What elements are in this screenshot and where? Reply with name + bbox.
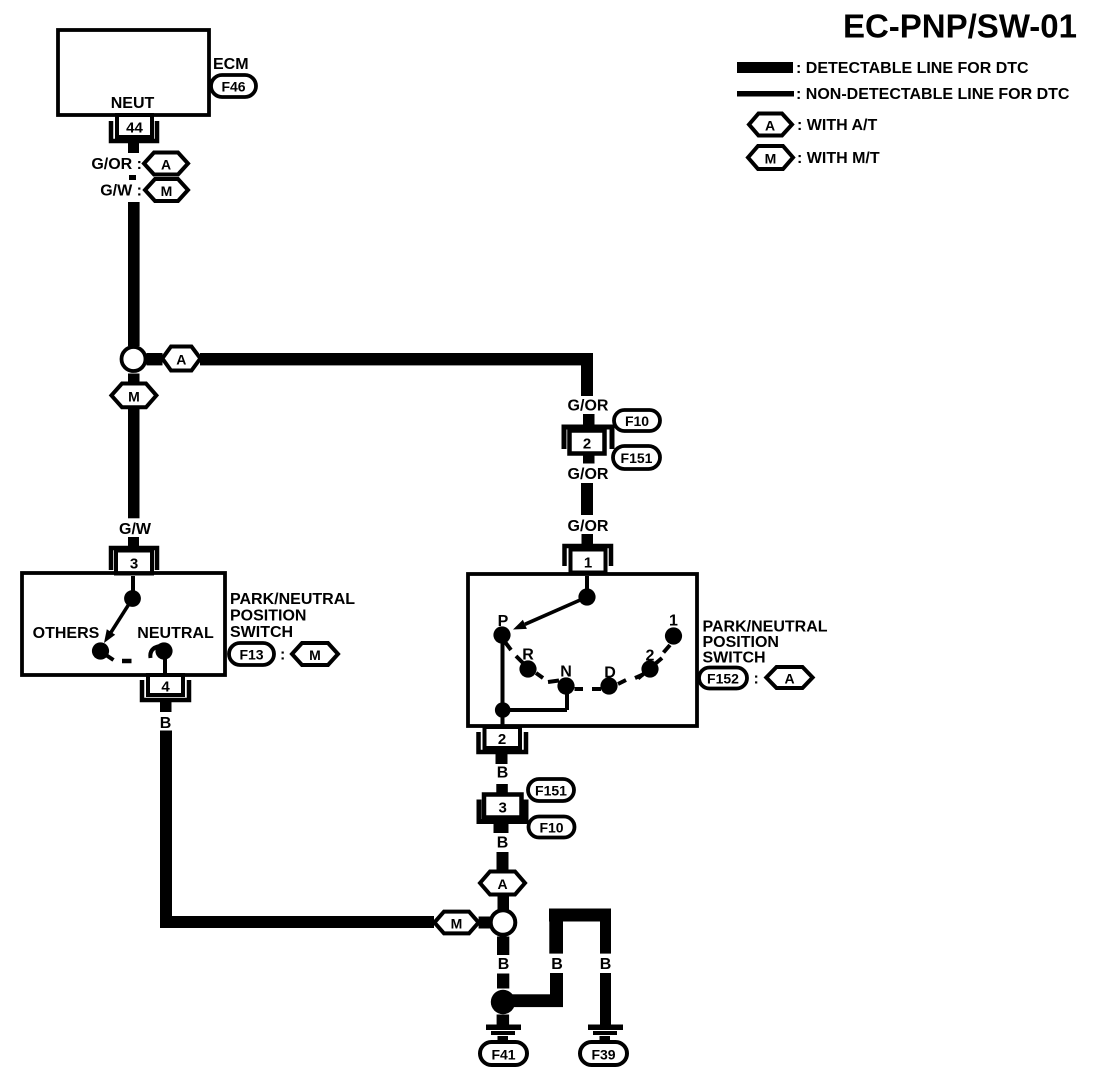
svg-text:EC-PNP/SW-01: EC-PNP/SW-01 — [843, 8, 1077, 45]
wire stub above pin 1 — [582, 534, 594, 545]
svg-text:3: 3 — [499, 800, 507, 817]
wire node to hexagon A — [147, 353, 163, 365]
contact dot N — [557, 677, 574, 694]
hexagon tag M below node — [111, 384, 156, 408]
junction dot in right box — [495, 702, 511, 718]
connector ref F10 pill (lower) — [529, 817, 575, 838]
svg-text::: : — [754, 671, 759, 688]
colon separator — [280, 647, 285, 664]
svg-text:POSITION: POSITION — [703, 634, 779, 651]
ground ref F39 pill — [580, 1042, 627, 1065]
wire stub below inline connector 2 — [583, 454, 595, 464]
svg-text:4: 4 — [161, 679, 170, 696]
wire stub below bottom node — [497, 937, 509, 956]
svg-text::: : — [280, 647, 285, 664]
label PARK/NEUTRAL POSITION SWITCH (left) — [230, 591, 355, 641]
R contact tick upper — [516, 656, 523, 663]
pin 3 connector of left switch — [111, 548, 157, 574]
svg-text:M: M — [451, 916, 463, 932]
legend detectable line label — [796, 60, 1029, 77]
hexagon tag A — [144, 153, 188, 175]
wire segment G/OR — [581, 483, 593, 515]
label D — [604, 665, 616, 682]
bridge top bar — [549, 909, 611, 922]
svg-text:ECM: ECM — [213, 56, 249, 73]
hexagon tag M bottom — [434, 912, 478, 934]
hexagon tag M — [145, 179, 188, 201]
label PARK/NEUTRAL POSITION SWITCH (right) — [703, 619, 828, 667]
connector ref F152 pill — [699, 668, 747, 689]
wire junction to N riser — [502, 708, 567, 712]
wire segment above hexagon A — [497, 852, 509, 872]
legend non-detectable line swatch — [737, 91, 794, 97]
ground junction dot — [491, 990, 515, 1014]
wire stub hexagon A to node — [498, 895, 510, 911]
right drop upper segment — [600, 919, 611, 954]
ECM box — [58, 30, 209, 115]
svg-text:F152: F152 — [707, 671, 739, 687]
pin 2 connector of right switch — [479, 727, 527, 752]
svg-text:A: A — [161, 157, 171, 173]
wire stub between rows — [129, 175, 136, 180]
label P — [498, 613, 509, 630]
switch common contact dot (left box) — [124, 590, 141, 607]
svg-text:2: 2 — [498, 731, 506, 748]
contact dot D — [600, 677, 617, 694]
svg-text:F39: F39 — [591, 1047, 615, 1063]
svg-text:F46: F46 — [221, 79, 245, 95]
svg-text:F151: F151 — [535, 783, 567, 799]
NEUTRAL contact dot — [155, 642, 172, 659]
wire bottom horizontal to hexagon M — [160, 916, 434, 928]
svg-text:G/OR :: G/OR : — [91, 156, 142, 173]
colon separator right — [754, 671, 759, 688]
hexagon tag A for F152 — [766, 667, 812, 688]
pin 4 connector of left switch — [142, 675, 189, 700]
connector ref F151 pill (lower) — [528, 779, 574, 801]
wire stub hexagon M to node — [479, 917, 492, 929]
legend non-detectable line label — [796, 86, 1070, 103]
svg-text:NEUT: NEUT — [111, 95, 155, 112]
wire label G/OR (right branch upper) — [568, 398, 609, 415]
svg-text:F10: F10 — [625, 413, 649, 429]
connector ref F46 pill — [211, 75, 256, 97]
svg-text:M: M — [765, 151, 777, 167]
wire label G/W — [119, 521, 152, 538]
D contact tick — [618, 680, 626, 684]
wire P down — [501, 640, 505, 726]
svg-text:M: M — [309, 647, 321, 663]
wire stub above pin 3 — [128, 537, 139, 547]
contact dot R — [519, 660, 536, 677]
contact 1 tick — [664, 645, 671, 653]
dash D-2 — [635, 675, 643, 679]
pin 1 connector of right switch — [565, 546, 612, 573]
wire label B (bottom middle) — [551, 956, 563, 973]
inline connector pin 3 (F151/F10) — [479, 795, 526, 822]
pin 44 connector — [111, 115, 157, 141]
wire right branch corner down — [581, 353, 593, 396]
slash through contact 2 — [638, 658, 662, 679]
right switch box (A/T) — [468, 574, 697, 726]
svg-text:B: B — [551, 956, 563, 973]
svg-text:A: A — [784, 671, 794, 687]
label NEUTRAL — [137, 625, 214, 642]
wire label B (bottom left) — [498, 956, 510, 973]
OTHERS contact dot — [92, 642, 109, 659]
svg-text:G/OR: G/OR — [568, 466, 609, 483]
wire stub below pin 44 — [128, 143, 139, 153]
label R — [522, 647, 534, 664]
svg-text:A: A — [176, 352, 186, 368]
svg-text:: WITH M/T: : WITH M/T — [797, 150, 880, 167]
wire dot to right riser — [510, 994, 563, 1007]
svg-text:PARK/NEUTRAL: PARK/NEUTRAL — [230, 591, 355, 608]
wire horizontal A/T branch — [200, 353, 593, 365]
wire label G/OR (lower) — [568, 518, 609, 535]
riser to N contact — [565, 690, 569, 710]
hexagon tag M for F13 — [292, 643, 338, 665]
svg-text:: NON-DETECTABLE LINE FOR DTC: : NON-DETECTABLE LINE FOR DTC — [796, 86, 1070, 103]
label N — [560, 664, 572, 681]
wire label B (below pin 2) — [497, 765, 509, 782]
svg-text:B: B — [497, 835, 509, 852]
wire label G/OR (middle) — [568, 466, 609, 483]
wire stub dot to ground F41 — [497, 1015, 510, 1025]
R contact tick lower — [536, 673, 543, 678]
pin name NEUT — [111, 95, 155, 112]
switch arm with arrowhead (right box) — [513, 597, 587, 630]
svg-text:G/OR: G/OR — [568, 398, 609, 415]
ground ref F41 pill — [480, 1042, 527, 1065]
connector ref F13 pill — [229, 643, 274, 665]
inline connector pin 2 (F10/F151) — [564, 427, 612, 454]
wire left B down to corner — [160, 731, 172, 929]
switch common contact dot (right box) — [578, 588, 595, 605]
svg-text:SWITCH: SWITCH — [230, 624, 293, 641]
wire node to left switch (G/W) — [128, 407, 140, 518]
wire stub below pin 4 — [160, 702, 172, 712]
svg-text:M: M — [128, 388, 140, 404]
svg-text:1: 1 — [669, 613, 678, 630]
switch arm with arrowhead (left box) — [104, 599, 133, 644]
svg-text:SWITCH: SWITCH — [703, 650, 766, 667]
ECM label — [213, 56, 249, 73]
svg-text:F41: F41 — [491, 1047, 515, 1063]
svg-text:G/OR: G/OR — [568, 518, 609, 535]
node junction circle — [122, 347, 146, 371]
wire stub above ground dot — [497, 974, 509, 989]
wire stub into left box — [131, 576, 135, 592]
wire stub below pin 2 — [496, 754, 508, 764]
svg-text:44: 44 — [126, 120, 143, 137]
right drop lower segment — [600, 973, 611, 1025]
svg-text:POSITION: POSITION — [230, 608, 306, 625]
svg-text:F151: F151 — [621, 450, 653, 466]
wire label B (below inline 3) — [497, 835, 509, 852]
svg-text:A: A — [497, 876, 507, 892]
wire stub into right box — [585, 576, 589, 592]
legend connector tag A — [749, 114, 792, 136]
legend WITH M/T label — [797, 150, 880, 167]
svg-text:: DETECTABLE LINE FOR DTC: : DETECTABLE LINE FOR DTC — [796, 60, 1029, 77]
svg-text:G/W: G/W — [119, 521, 152, 538]
hexagon tag A at node — [162, 347, 200, 371]
dash N right 1 — [575, 687, 584, 691]
svg-text:B: B — [498, 956, 510, 973]
svg-text:B: B — [600, 956, 612, 973]
wire label B (bottom right) — [600, 956, 612, 973]
wire stub above inline connector 3 — [496, 784, 508, 795]
contact dot 2 — [641, 660, 658, 677]
svg-text:M: M — [161, 183, 173, 199]
svg-text:3: 3 — [130, 556, 138, 573]
svg-text:PARK/NEUTRAL: PARK/NEUTRAL — [703, 619, 828, 636]
title EC-PNP/SW-01 — [843, 8, 1077, 45]
wire ECM to node — [128, 202, 140, 346]
legend detectable line swatch — [737, 62, 793, 73]
legend WITH A/T label — [797, 117, 878, 134]
dash N right 2 — [592, 687, 601, 691]
svg-text:G/W :: G/W : — [100, 183, 142, 200]
label 2 — [646, 648, 655, 665]
OTHERS contact tick — [106, 655, 114, 660]
svg-text:OTHERS: OTHERS — [33, 625, 100, 642]
wire stub below inline connector 3 — [494, 824, 509, 834]
right riser upper segment — [549, 919, 563, 954]
svg-text:B: B — [497, 765, 509, 782]
contact dot 1 — [665, 627, 682, 644]
wire stub below node — [128, 374, 140, 385]
svg-text:1: 1 — [584, 555, 592, 572]
wire stub above inline connector 2 — [583, 414, 595, 425]
wire label G/W (M/T) — [100, 183, 142, 200]
right riser lower segment — [550, 973, 563, 998]
svg-text:2: 2 — [583, 436, 591, 453]
hexagon tag A above bottom node — [480, 872, 525, 895]
wire label B (left) — [160, 715, 172, 732]
svg-text:: WITH A/T: : WITH A/T — [797, 117, 878, 134]
svg-text:A: A — [765, 118, 775, 134]
legend connector tag M — [748, 146, 793, 169]
connector ref F151 pill — [613, 446, 660, 469]
left switch box (M/T) — [22, 573, 225, 675]
label 1 — [669, 613, 678, 630]
svg-text:F10: F10 — [539, 820, 563, 836]
dash between contacts — [122, 659, 132, 664]
svg-text:NEUTRAL: NEUTRAL — [137, 625, 214, 642]
ground symbol F41 — [486, 1025, 521, 1041]
P contact tick — [505, 642, 511, 650]
wire label G/OR (A/T) — [91, 156, 142, 173]
NEUTRAL contact comma tail — [150, 646, 160, 658]
dash R-N — [548, 681, 559, 683]
bottom node junction circle — [491, 910, 516, 935]
svg-text:F13: F13 — [239, 647, 263, 663]
svg-text:B: B — [160, 715, 172, 732]
wire NEUTRAL dot to pin 4 — [163, 655, 167, 675]
ground symbol F39 — [588, 1025, 623, 1041]
connector ref F10 pill — [614, 410, 660, 431]
contact dot P — [493, 626, 510, 643]
label OTHERS — [33, 625, 100, 642]
